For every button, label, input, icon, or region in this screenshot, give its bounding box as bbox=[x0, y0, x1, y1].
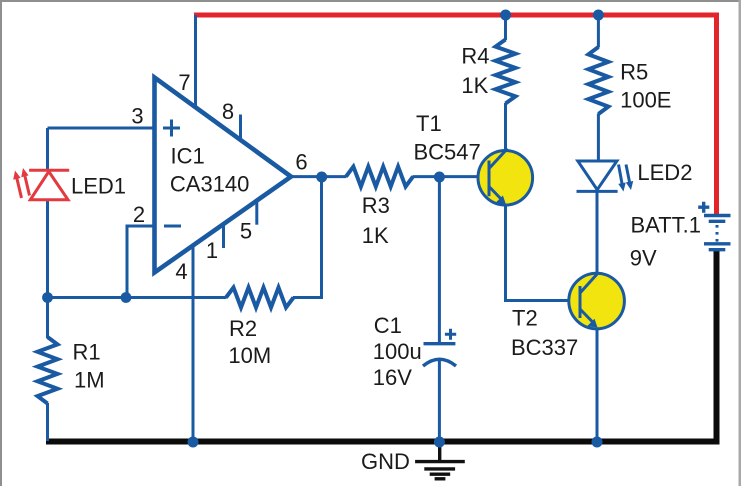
node: feedback left junction bbox=[42, 292, 53, 303]
wire: pin2 input wire bbox=[127, 226, 154, 298]
resistor R4 bbox=[496, 40, 516, 104]
svg-text:7: 7 bbox=[178, 70, 190, 95]
svg-text:100E: 100E bbox=[620, 87, 671, 112]
wire: output pin6 to R3 bbox=[291, 175, 347, 178]
node: pin4 ground junction bbox=[188, 437, 199, 448]
svg-text:3: 3 bbox=[131, 104, 143, 129]
pin 5 stub bbox=[255, 201, 258, 225]
svg-text:BC337: BC337 bbox=[511, 335, 578, 360]
pin 8 stub bbox=[239, 115, 242, 141]
svg-text:4: 4 bbox=[175, 259, 187, 284]
node: pin2 feedback junction bbox=[121, 292, 132, 303]
svg-text:16V: 16V bbox=[373, 365, 412, 390]
svg-text:10M: 10M bbox=[228, 343, 271, 368]
resistor R2 bbox=[226, 288, 294, 308]
svg-text:LED2: LED2 bbox=[637, 160, 692, 185]
svg-text:1K: 1K bbox=[461, 73, 488, 98]
transistor Q1 (T1 BC547) bbox=[478, 149, 533, 206]
op-amp U1 triangle body bbox=[155, 78, 292, 273]
op-amp plus input symbol bbox=[163, 120, 180, 137]
svg-text:9V: 9V bbox=[630, 246, 657, 271]
wire: left branch LED1 upper segment bbox=[46, 128, 49, 171]
wire: C1 top lead bbox=[438, 177, 441, 343]
pin 1 stub bbox=[222, 224, 225, 248]
wire: T2 emitter to ground rail bbox=[596, 328, 599, 441]
wire: R5 bottom lead to LED2 bbox=[597, 114, 600, 162]
svg-text:IC1: IC1 bbox=[171, 143, 205, 168]
op-amp minus input symbol bbox=[164, 225, 181, 228]
svg-text:1K: 1K bbox=[362, 223, 389, 248]
wire: R2 right lead up to output node bbox=[293, 176, 322, 298]
node: C1 ground junction bbox=[434, 437, 445, 448]
border frame bbox=[0, 0, 741, 2]
node: R4 rail junction bbox=[500, 10, 511, 21]
wire: R1 bottom lead to ground rail bbox=[46, 403, 49, 441]
svg-text:1M: 1M bbox=[74, 368, 105, 393]
transistor Q2 (T2 BC337) bbox=[569, 273, 625, 329]
resistor R5 bbox=[588, 47, 608, 114]
svg-text:BATT.1: BATT.1 bbox=[631, 213, 702, 238]
ground symbol bbox=[415, 444, 465, 479]
wire: feedback wire node A to R2 bbox=[48, 296, 227, 299]
svg-text:T1: T1 bbox=[416, 111, 442, 136]
wire: left branch LED1 lower segment to node A bbox=[46, 199, 49, 298]
svg-text:6: 6 bbox=[295, 150, 307, 175]
svg-text:100u: 100u bbox=[373, 339, 422, 364]
svg-text:C1: C1 bbox=[374, 313, 402, 338]
resistor R1 bbox=[38, 337, 58, 404]
wire: +V red rail top and right bbox=[194, 13, 717, 215]
svg-text:5: 5 bbox=[240, 219, 252, 244]
wire: R5 top lead from rail bbox=[597, 15, 600, 48]
wire: R3 to T1 base bbox=[413, 175, 490, 178]
svg-text:1: 1 bbox=[206, 238, 218, 263]
svg-text:R1: R1 bbox=[73, 340, 101, 365]
node: C1/T1 base junction bbox=[434, 172, 445, 183]
svg-text:R2: R2 bbox=[229, 316, 257, 341]
node: T2 emitter ground junction bbox=[592, 437, 603, 448]
wire: pin3 input wire bbox=[48, 127, 155, 130]
svg-text:BC547: BC547 bbox=[414, 140, 481, 165]
wire: pin7 supply wire bbox=[194, 15, 197, 106]
svg-text:LED1: LED1 bbox=[71, 174, 126, 199]
svg-text:CA3140: CA3140 bbox=[170, 172, 250, 197]
battery BATT.1 bbox=[698, 202, 730, 250]
svg-text:T2: T2 bbox=[512, 306, 538, 331]
svg-text:R3: R3 bbox=[362, 193, 390, 218]
svg-text:GND: GND bbox=[361, 449, 410, 474]
wire: R4 top lead from rail bbox=[504, 15, 507, 40]
wire: pin4 wire to ground bbox=[192, 245, 195, 441]
svg-text:R5: R5 bbox=[620, 59, 648, 84]
LED1 symbol bbox=[13, 168, 69, 200]
node: R5 rail junction bbox=[593, 10, 604, 21]
node: output pin6 junction bbox=[316, 172, 327, 183]
LED2 symbol bbox=[577, 161, 634, 192]
wire: R1 top lead bbox=[46, 298, 49, 339]
wire: ground rail bottom and right (black) bbox=[46, 250, 720, 442]
wire: C1 bottom lead to ground bbox=[438, 359, 441, 441]
svg-text:R4: R4 bbox=[461, 44, 489, 69]
resistor R3 bbox=[346, 167, 413, 187]
wire: LED2 cathode to T2 collector bbox=[596, 192, 599, 275]
wire: R4 bottom lead to T1 collector bbox=[504, 103, 507, 151]
svg-text:2: 2 bbox=[133, 202, 145, 227]
svg-text:8: 8 bbox=[222, 99, 234, 124]
wire: T1 emitter to T2 base bbox=[506, 204, 581, 301]
capacitor C1 bbox=[423, 329, 456, 366]
